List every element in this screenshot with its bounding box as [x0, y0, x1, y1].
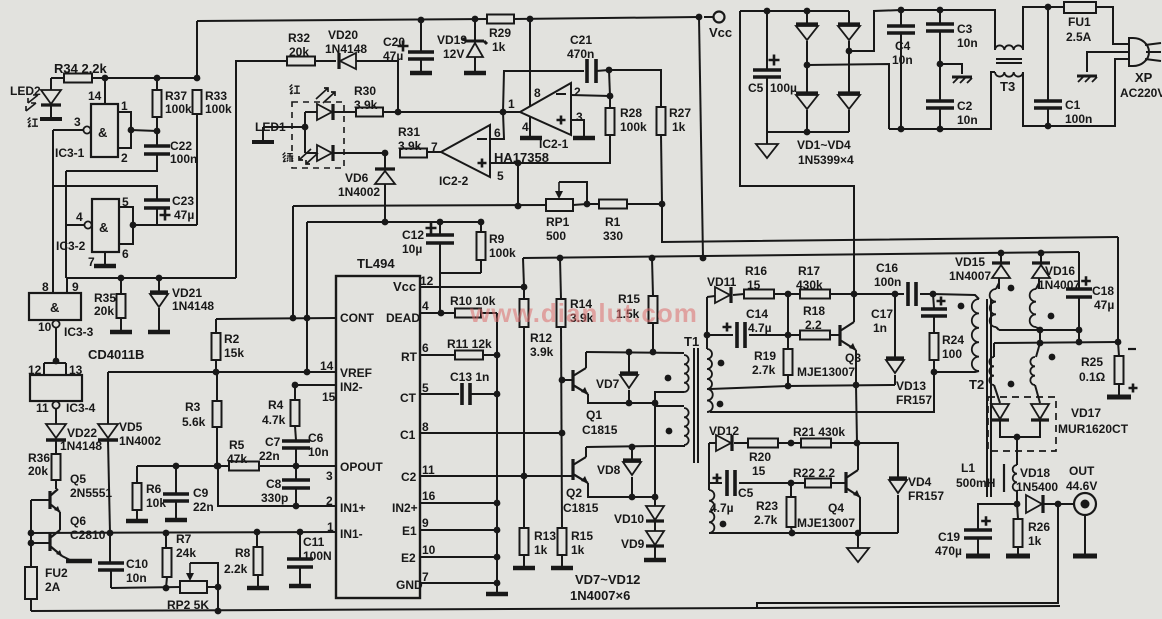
- resistor R25: [1118, 342, 1119, 356]
- svg-text:R7: R7: [176, 532, 192, 546]
- svg-text:CD4011B: CD4011B: [88, 347, 144, 362]
- resistor R30: [356, 108, 383, 117]
- junction dot R30 right node: [395, 109, 402, 116]
- T1 secondary upper winding: [707, 349, 712, 389]
- svg-text:2.5A: 2.5A: [1066, 30, 1092, 44]
- bus VREF (pin14) y372: [108, 371, 336, 373]
- svg-text:100n: 100n: [170, 152, 197, 166]
- resistor R18: [800, 331, 830, 340]
- wire vertical x293 from bus207: [292, 206, 294, 318]
- IC2-1 output wire to dot: [503, 111, 520, 113]
- output wire y343: [994, 342, 1118, 343]
- diode VD3: [806, 65, 808, 93]
- junction dot R1 right / feedback: [659, 201, 666, 208]
- Q4 collector riser: [857, 443, 859, 470]
- resistor R14: [557, 299, 566, 327]
- junction dot Vcc rail x703: [700, 255, 707, 262]
- output return wire: [757, 504, 1058, 608]
- svg-text:14: 14: [320, 359, 334, 373]
- svg-text:RP1: RP1: [546, 215, 570, 229]
- IC2-1 pin8 Vcc stub: [529, 19, 531, 106]
- T2 secondary winding B: [1030, 289, 1036, 327]
- resistor R19: [787, 335, 789, 349]
- svg-text:VD7: VD7: [596, 377, 620, 391]
- svg-text:R5: R5: [229, 438, 245, 452]
- resistor R36: [55, 440, 57, 454]
- wire C16 node to T2 primary top: [933, 294, 979, 299]
- svg-text:VD12: VD12: [709, 424, 739, 438]
- svg-text:1: 1: [508, 97, 515, 111]
- cap block top wire y10: [873, 10, 875, 12]
- svg-text:C1: C1: [400, 428, 416, 442]
- svg-text:VD17: VD17: [1071, 406, 1101, 420]
- resistor R15 (emitter): [558, 528, 567, 555]
- svg-text:22n: 22n: [259, 449, 280, 463]
- FU2 bottom to border: [30, 599, 32, 611]
- junction dot R18/R19/C14: [785, 332, 792, 339]
- wire C12/R9 bottom link: [440, 272, 481, 274]
- svg-text:14: 14: [88, 89, 102, 103]
- Vcc terminal circle: [714, 12, 725, 23]
- svg-text:IC3-3: IC3-3: [64, 325, 94, 339]
- svg-text:R11 12k: R11 12k: [447, 337, 492, 351]
- inductor L1: [1016, 437, 1018, 465]
- resistor R12: [520, 299, 529, 327]
- svg-text:330p: 330p: [261, 491, 288, 505]
- capacitor C22: [156, 131, 158, 146]
- junction dot R10 left: [438, 310, 445, 317]
- plug prongs: [1145, 43, 1161, 45]
- capacitor C17: [937, 297, 946, 306]
- LED1 common lead and ground bar: [263, 126, 305, 128]
- wire VD12 to R20: [734, 442, 748, 444]
- svg-text:Q6: Q6: [70, 514, 86, 528]
- DC- ground stem and triangle: [766, 132, 768, 144]
- bottom border wire: [31, 608, 757, 611]
- IC3-1 pin3 bubble and wire: [83, 126, 90, 133]
- svg-text:2A: 2A: [45, 580, 61, 594]
- wire IC3-1 pin 14: [104, 78, 106, 104]
- svg-text:C13 1n: C13 1n: [450, 370, 489, 384]
- svg-text:C1815: C1815: [563, 501, 599, 515]
- capacitor C10: [109, 533, 111, 562]
- junction dot R35 top: [118, 275, 125, 282]
- diode VD10: [654, 497, 656, 506]
- svg-text:C14: C14: [746, 307, 768, 321]
- junction dot VD7 bottom: [626, 400, 633, 407]
- resistor R4: [294, 385, 296, 400]
- svg-text:C12: C12: [402, 228, 424, 242]
- svg-text:1k: 1k: [571, 543, 585, 557]
- svg-text:0.1Ω: 0.1Ω: [1079, 370, 1106, 384]
- svg-text:C20: C20: [383, 35, 405, 49]
- resistor R23: [790, 483, 792, 497]
- svg-text:4.7k: 4.7k: [262, 413, 286, 427]
- wire net A pin3 to C23 (y186): [52, 130, 54, 293]
- wire R27 bottom to R1 node: [661, 135, 662, 204]
- svg-text:OPOUT: OPOUT: [340, 460, 383, 474]
- svg-text:RT: RT: [401, 350, 418, 364]
- svg-text:10: 10: [38, 320, 52, 334]
- IC3-3 pin8 stub: [52, 292, 54, 294]
- svg-text:7: 7: [88, 255, 95, 269]
- junction dot C5 top: [764, 8, 771, 15]
- junction dot C2/Q2-base: [521, 473, 528, 480]
- svg-text:6: 6: [122, 247, 129, 261]
- diode VD4: [889, 476, 907, 479]
- svg-text:C11: C11: [303, 535, 325, 549]
- svg-text:R2: R2: [224, 332, 240, 346]
- bridge top DC+ wire y11: [740, 10, 849, 12]
- Q5 base wire: [31, 499, 50, 501]
- junction dot R22/R23 node: [788, 480, 795, 487]
- junction dot VD8 top: [629, 444, 636, 451]
- svg-text:FU2: FU2: [45, 566, 68, 580]
- wire rail up right side x236 to LED1 wire: [236, 61, 287, 278]
- junction dot C12 branch on pin12 wire: [439, 273, 441, 313]
- T2 phase dot A: [1008, 285, 1015, 292]
- svg-text:1N4007: 1N4007: [949, 269, 991, 283]
- capacitor C1: [1047, 7, 1049, 100]
- resistor R9: [480, 222, 482, 232]
- cap block bottom wire: [889, 128, 989, 130]
- diode VD15: [1000, 253, 1002, 262]
- svg-text:2N5551: 2N5551: [70, 486, 112, 500]
- diode VD20 (points left): [340, 53, 356, 69]
- transistor Q3: [838, 325, 841, 346]
- svg-text:5: 5: [122, 195, 129, 209]
- resistor R10: [455, 309, 481, 318]
- junction dot center rail x655: [652, 400, 659, 407]
- svg-text:15: 15: [322, 390, 336, 404]
- resistor R7: [165, 533, 167, 548]
- svg-text:VD6: VD6: [345, 171, 369, 185]
- T1 phase dot lower: [666, 428, 673, 435]
- R8 ground: [247, 586, 269, 591]
- resistor R2: [215, 319, 217, 333]
- resistor R26: [1017, 504, 1018, 519]
- resistor R35: [120, 278, 122, 294]
- svg-text:9: 9: [72, 280, 79, 294]
- svg-text:47µ: 47µ: [174, 208, 194, 222]
- junction dot Q4 emitter: [855, 530, 862, 537]
- diode VD5 on vertical x110: [107, 372, 109, 424]
- svg-text:3.9k: 3.9k: [398, 139, 422, 153]
- potentiometer RP2: [180, 581, 207, 593]
- transistor Q6: [48, 533, 51, 551]
- junction dot R2/R3: [213, 369, 220, 376]
- svg-text:1n: 1n: [873, 321, 887, 335]
- svg-text:430k: 430k: [796, 278, 823, 292]
- junction dot R7 top: [163, 530, 170, 537]
- svg-text:CONT: CONT: [340, 311, 375, 325]
- svg-text:2.7k: 2.7k: [754, 513, 778, 527]
- svg-text:15: 15: [747, 278, 761, 292]
- capacitor C21: [587, 59, 596, 83]
- svg-text:330: 330: [603, 229, 623, 243]
- resistor R11: [455, 351, 483, 360]
- T2 primary phase dot: [958, 303, 965, 310]
- svg-text:R35: R35: [94, 291, 116, 305]
- junction dot VD16 top: [1038, 250, 1045, 257]
- label 红 (red): [28, 118, 38, 127]
- C11 ground: [289, 584, 311, 589]
- IC2-1 pin4 ground: [529, 117, 531, 136]
- feedback wire via C21: [503, 71, 584, 112]
- label 红 (red) for LED1: [290, 85, 300, 94]
- junction dot R34/IC3-1 pin14: [102, 75, 109, 82]
- junction dot green row / VD6: [382, 150, 389, 157]
- svg-text:1N5400: 1N5400: [1016, 480, 1058, 494]
- svg-text:1N5399×4: 1N5399×4: [798, 153, 854, 167]
- svg-text:4: 4: [422, 299, 429, 313]
- T2 phase dot B: [1048, 313, 1055, 320]
- diode VD12: [709, 442, 716, 444]
- svg-text:E1: E1: [402, 524, 417, 538]
- left vertical rail x31: [30, 500, 32, 567]
- junction dot VD1 top: [804, 8, 811, 15]
- capacitor C2: [939, 64, 941, 100]
- resistor R22: [805, 479, 831, 488]
- svg-text:3.9k: 3.9k: [354, 98, 378, 112]
- svg-text:100k: 100k: [620, 120, 647, 134]
- diode VD9: [654, 521, 656, 531]
- svg-text:Q2: Q2: [566, 486, 582, 500]
- wire Vcc pin12: [420, 286, 524, 288]
- svg-text:R9: R9: [489, 232, 505, 246]
- svg-text:R27: R27: [669, 106, 691, 120]
- svg-text:11: 11: [422, 463, 435, 477]
- svg-text:FR157: FR157: [896, 393, 932, 407]
- svg-text:6: 6: [494, 126, 501, 140]
- Q3 emitter drop: [855, 350, 857, 385]
- IC3-3 pin10 bubble: [52, 320, 59, 327]
- wire y352 collector rail to T1: [586, 352, 684, 353]
- bus IN1- (pin1) y533: [31, 532, 336, 533]
- Vcc rail down x703: [699, 17, 703, 258]
- wire R33 bottom to IC3-2 output node: [196, 114, 198, 225]
- wire R34 node to R37/R33 tops (y78): [51, 77, 64, 79]
- svg-text:R6: R6: [146, 482, 162, 496]
- R6 ground: [126, 519, 148, 524]
- svg-text:2: 2: [574, 85, 581, 99]
- svg-text:C3: C3: [957, 22, 973, 36]
- diode VD18: [1026, 495, 1042, 513]
- svg-text:8: 8: [422, 420, 429, 434]
- junction dot pin8 on top bus: [527, 16, 534, 23]
- wire plug bottom to C1/T3: [1048, 59, 1128, 126]
- svg-text:2.2: 2.2: [805, 318, 822, 332]
- svg-text:12: 12: [420, 274, 434, 288]
- Q2 emitter wire: [588, 483, 655, 497]
- svg-text:IN1+: IN1+: [340, 501, 366, 515]
- OUT ground: [1084, 515, 1086, 554]
- diode VD2: [848, 11, 850, 24]
- svg-text:100k: 100k: [205, 102, 232, 116]
- junction dot RP1/R1: [584, 201, 591, 208]
- resistor R29: [487, 15, 514, 24]
- junction dot OUT node: [1055, 501, 1062, 508]
- junction dot C9 top: [173, 463, 180, 470]
- IC3-2 output dot: [130, 222, 137, 229]
- svg-text:R28: R28: [620, 106, 642, 120]
- svg-text:R30: R30: [354, 84, 376, 98]
- IC3-2 pin7 ground: [104, 252, 106, 264]
- svg-text:FR157: FR157: [908, 489, 944, 503]
- svg-text:IC2-2: IC2-2: [439, 174, 469, 188]
- junction dot C8/C7 bus: [293, 463, 300, 470]
- junction dot C11 top: [297, 529, 304, 536]
- svg-text:100n: 100n: [874, 275, 901, 289]
- junction dot R37 top: [154, 75, 161, 82]
- svg-text:VD5: VD5: [119, 420, 143, 434]
- svg-text:1k: 1k: [492, 40, 506, 54]
- capacitor C4: [900, 10, 902, 25]
- T1 center rail x655: [654, 392, 656, 497]
- resistor R34: [64, 74, 92, 83]
- svg-text:1: 1: [121, 99, 128, 113]
- capacitor C3: [939, 10, 941, 23]
- wire CONT pin: [216, 318, 336, 319]
- junction dot Q3 emitter node: [853, 382, 860, 389]
- svg-text:C5: C5: [738, 486, 754, 500]
- svg-text:MJE13007: MJE13007: [797, 516, 855, 530]
- capacitor C11: [299, 532, 301, 559]
- wire C23 bottom to IC3-2 out wire: [156, 208, 158, 225]
- wire y447 Q2 collector rail to T1: [586, 446, 655, 447]
- svg-text:10n: 10n: [957, 113, 978, 127]
- capacitor C20 (electrolytic): [420, 20, 422, 51]
- resistor R16: [744, 290, 774, 299]
- Q6 emitter bar: [62, 556, 70, 560]
- LED2 diode: [50, 78, 52, 90]
- svg-text:4: 4: [522, 120, 529, 134]
- wire vertical x307 from bus222: [306, 222, 308, 372]
- mid ground hatch: [940, 64, 962, 74]
- junction dot VD3 bottom: [804, 129, 811, 136]
- T2 core lines: [986, 299, 988, 497]
- VD17 diode a: [991, 404, 1009, 419]
- junction dot R14 top: [557, 255, 564, 262]
- wire C2 pin11: [420, 475, 524, 477]
- svg-text:47k: 47k: [227, 452, 247, 466]
- svg-text:C4: C4: [895, 39, 911, 53]
- svg-text:22n: 22n: [193, 500, 214, 514]
- bridge bottom DC- wire: [767, 131, 849, 133]
- capacitor C5b (4.7u): [713, 474, 722, 483]
- T1 winding jog: [655, 392, 684, 406]
- diode VD6: [384, 153, 386, 168]
- svg-text:2: 2: [121, 151, 128, 165]
- svg-text:R1: R1: [605, 215, 621, 229]
- resistor R28: [609, 96, 611, 108]
- svg-text:VD4: VD4: [908, 475, 932, 489]
- R13 ground: [513, 566, 535, 571]
- R6 branch corner: [136, 466, 138, 483]
- VD21 ground: [148, 330, 170, 335]
- svg-text:www.dianlut.com: www.dianlut.com: [469, 298, 698, 328]
- svg-text:20k: 20k: [289, 45, 309, 59]
- wire IN2- pin15: [295, 384, 336, 386]
- svg-text:5: 5: [422, 381, 429, 395]
- IC3-4 pin11 bubble: [52, 401, 59, 408]
- svg-text:R19: R19: [754, 349, 776, 363]
- T1 secondary lower winding: [707, 389, 713, 412]
- svg-text:VD19: VD19: [437, 33, 467, 47]
- svg-text:VD1~VD4: VD1~VD4: [797, 138, 851, 152]
- wire R30 node to IC2-1 out: [398, 111, 503, 113]
- bus Vcc y258 from TL494 up to T2 area: [523, 252, 1079, 258]
- svg-text:AC220V: AC220V: [1120, 86, 1162, 100]
- wire block to T3 top: [989, 10, 995, 44]
- junction dot VD7 top: [626, 349, 633, 356]
- VD12 left lead down to C5b row: [708, 443, 710, 490]
- junction dot DC+ / R17 / Q3 collector: [851, 291, 858, 298]
- IC3-1 output pins 1,2 jog: [118, 112, 131, 148]
- wire C22 bottom to net B (y171): [66, 154, 157, 171]
- T3 core lines: [996, 58, 1022, 60]
- wire VD11 to R16: [733, 294, 744, 295]
- svg-text:11: 11: [36, 401, 49, 415]
- C9 ground: [165, 518, 187, 523]
- resistor R3: [213, 401, 222, 427]
- junction dot R20/R21/R23: [788, 440, 795, 447]
- svg-text:C7: C7: [265, 435, 281, 449]
- wire y504 to C19: [978, 504, 1017, 529]
- diode VD7: [628, 352, 630, 372]
- svg-text:C2810: C2810: [70, 528, 106, 542]
- junction dot AC2: [846, 48, 853, 55]
- wire E2 pin10: [420, 556, 497, 558]
- svg-text:R26: R26: [1028, 520, 1050, 534]
- T2 phase dot C: [1008, 381, 1015, 388]
- T1 feedback winding (bottom right): [709, 490, 714, 533]
- svg-text:IN1-: IN1-: [340, 527, 363, 541]
- svg-text:R21 430k: R21 430k: [793, 425, 845, 439]
- junction dot Q1 base wire: [559, 377, 566, 384]
- svg-text:10: 10: [422, 543, 436, 557]
- junction dot VD21 top: [156, 275, 163, 282]
- svg-text:500: 500: [546, 229, 566, 243]
- svg-text:5: 5: [497, 169, 504, 183]
- gate IC3-3 body: [29, 293, 81, 320]
- svg-text:C23: C23: [172, 194, 194, 208]
- wire E1 pin9: [420, 529, 497, 531]
- svg-text:L1: L1: [961, 461, 975, 475]
- svg-text:C1815: C1815: [582, 423, 618, 437]
- bus corner down to pin12: [523, 258, 524, 287]
- LED1 red chip: [305, 111, 317, 113]
- junction dot R33 top: [194, 75, 201, 82]
- IC2-1 pin3 ground jog: [571, 120, 584, 136]
- svg-text:Vcc: Vcc: [709, 25, 732, 40]
- resistor R1: [573, 204, 587, 205]
- svg-text:15k: 15k: [224, 346, 244, 360]
- junction dot bus y533 left end: [28, 530, 35, 537]
- vertical rail x562 R14/R15: [560, 258, 561, 299]
- svg-text:R37: R37: [165, 89, 187, 103]
- svg-text:R23: R23: [756, 499, 778, 513]
- LED2 emission arrows: [26, 95, 38, 111]
- svg-text:1k: 1k: [672, 120, 686, 134]
- wire IC3-1 out to C22: [131, 130, 157, 131]
- junction dot C22 top / R37 bottom: [154, 128, 161, 135]
- C20 ground: [410, 71, 432, 76]
- DC+ left drop to y186 rail: [740, 11, 854, 294]
- junction dot R3 bottom / bus: [214, 463, 221, 470]
- resistor R27: [657, 107, 666, 135]
- svg-text:R4: R4: [268, 398, 284, 412]
